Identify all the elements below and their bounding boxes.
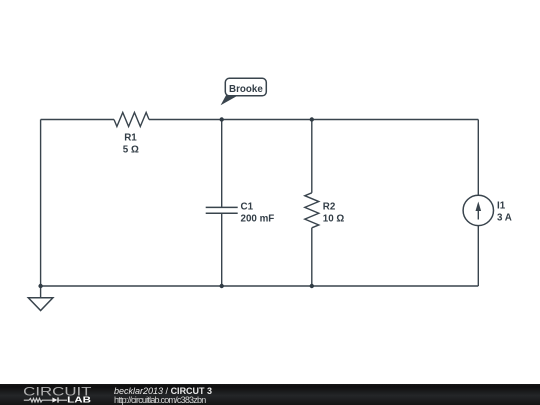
footer line 2 bbox=[114, 395, 205, 405]
node bottom C1 junction dot bbox=[220, 284, 224, 288]
current source I1 circle bbox=[463, 195, 493, 225]
resistor R2 wire bottom bbox=[311, 228, 313, 286]
current source I1 wire top bbox=[477, 120, 479, 196]
capacitor C1 plates bbox=[206, 206, 238, 208]
ground triangle bbox=[28, 298, 53, 311]
capacitor C1 wire bottom bbox=[221, 213, 223, 286]
resistor R2 bbox=[305, 193, 319, 228]
CircuitLab logo bbox=[0, 384, 110, 405]
wire left vertical bbox=[40, 120, 42, 287]
svg-text:LAB: LAB bbox=[67, 394, 91, 404]
footer bar bbox=[0, 384, 540, 405]
wire top-left segment bbox=[41, 119, 114, 121]
footer line 1 bbox=[114, 386, 212, 396]
svg-text:R1: R1 bbox=[124, 132, 137, 143]
resistor R2 wire top bbox=[311, 120, 313, 193]
svg-text:C1: C1 bbox=[241, 202, 254, 213]
resistor R1 bbox=[114, 113, 149, 127]
node bottom R2 junction dot bbox=[310, 284, 314, 288]
current source I1 arrow shaft bbox=[477, 208, 479, 220]
current source I1 arrowhead bbox=[476, 202, 482, 212]
svg-text:10 Ω: 10 Ω bbox=[323, 214, 345, 225]
node bottom ground junction dot bbox=[38, 284, 42, 288]
wire top-right segment bbox=[149, 119, 478, 121]
svg-text:I1: I1 bbox=[497, 201, 506, 212]
svg-text:200 mF: 200 mF bbox=[241, 214, 275, 225]
node top R2 junction dot bbox=[310, 117, 314, 121]
annotation Brooke tail bbox=[221, 95, 237, 106]
svg-text:Brooke: Brooke bbox=[229, 84, 263, 95]
svg-text:5 Ω: 5 Ω bbox=[123, 145, 139, 156]
ground stub bbox=[40, 286, 42, 298]
svg-text:R2: R2 bbox=[323, 202, 336, 213]
wire bottom bbox=[41, 285, 479, 287]
current source I1 wire bottom bbox=[477, 226, 479, 286]
capacitor C1 wire top bbox=[221, 120, 223, 208]
node top C1 junction dot bbox=[220, 117, 224, 121]
svg-text:3 A: 3 A bbox=[497, 213, 512, 224]
annotation Brooke bubble bbox=[225, 78, 266, 96]
